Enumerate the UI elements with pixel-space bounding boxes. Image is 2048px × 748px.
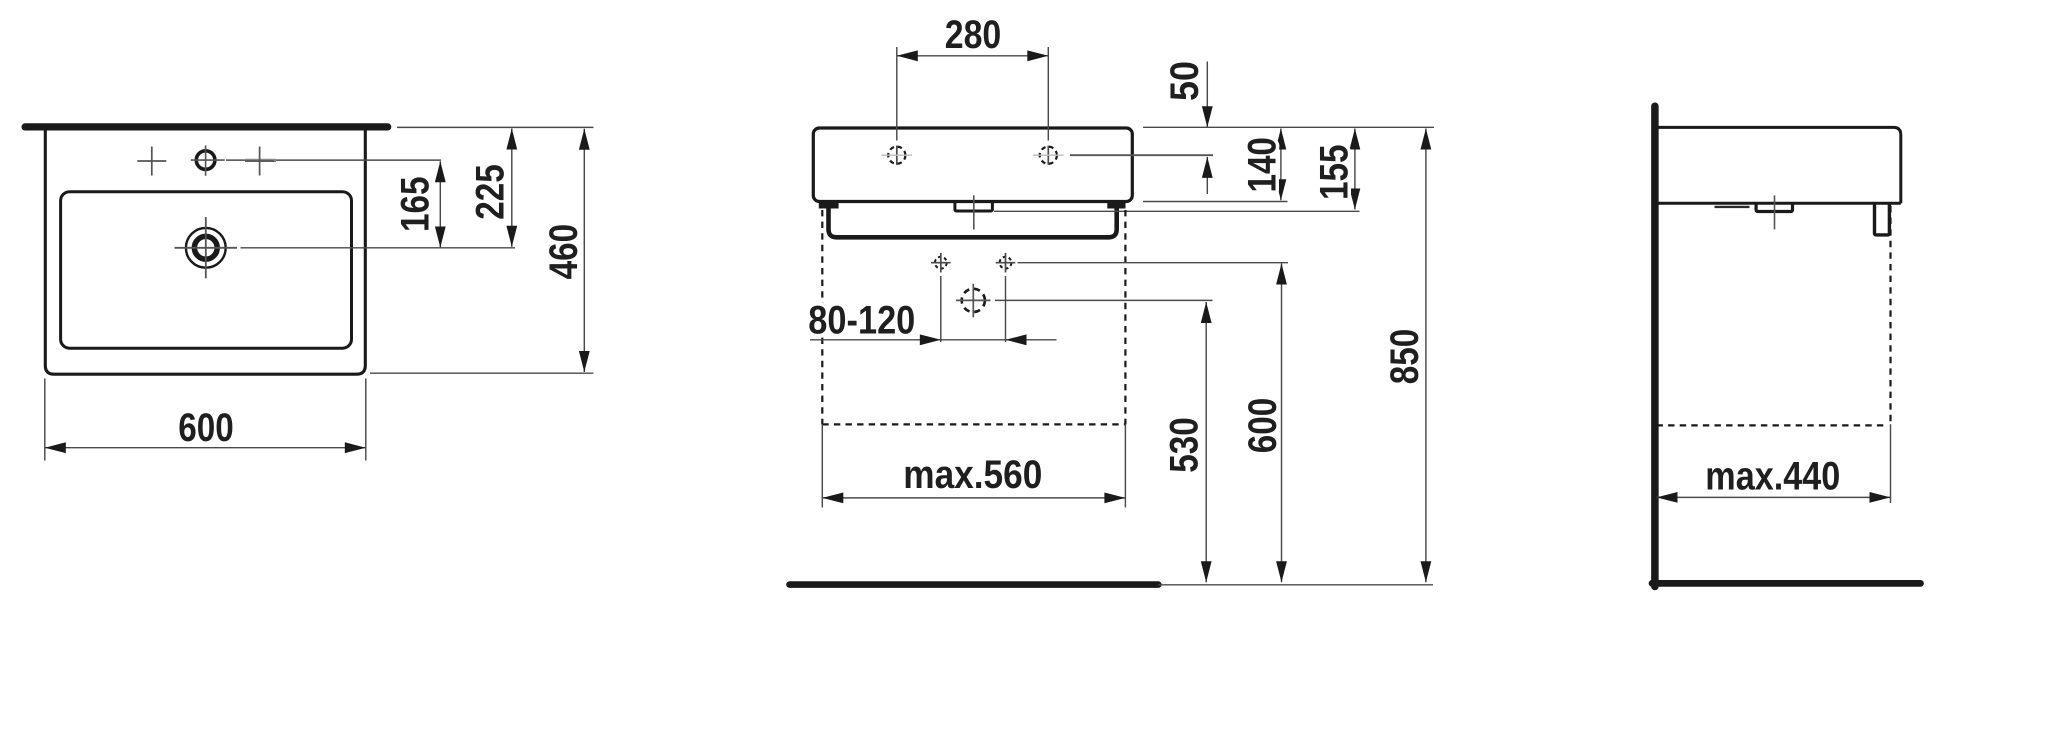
svg-text:225: 225 xyxy=(469,164,513,220)
svg-text:600: 600 xyxy=(178,406,234,450)
svg-text:50: 50 xyxy=(1163,61,1207,101)
svg-text:530: 530 xyxy=(1162,417,1206,473)
svg-text:165: 165 xyxy=(394,177,438,233)
svg-text:280: 280 xyxy=(945,13,1002,57)
svg-text:600: 600 xyxy=(1241,398,1285,454)
svg-text:155: 155 xyxy=(1313,144,1357,200)
svg-text:max.440: max.440 xyxy=(1705,455,1840,499)
svg-text:max.560: max.560 xyxy=(903,453,1042,497)
svg-text:460: 460 xyxy=(542,224,586,280)
svg-text:80-120: 80-120 xyxy=(808,298,915,342)
svg-text:850: 850 xyxy=(1383,329,1427,385)
svg-text:140: 140 xyxy=(1240,137,1284,193)
